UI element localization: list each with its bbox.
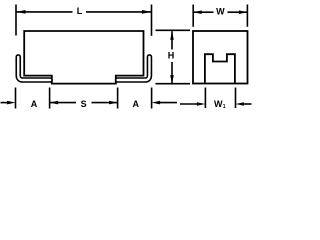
- terminal lead right (side view): [118, 57, 150, 80]
- svg-text:W: W: [216, 6, 225, 16]
- capacitor body outline (side view): [24, 31, 143, 84]
- S arrowhead right: [109, 101, 118, 105]
- W1 dimension extension line left: [204, 88, 206, 109]
- S dimension line: [50, 102, 76, 104]
- A dimension extension line inner left: [49, 88, 51, 109]
- W dimension line: [193, 11, 213, 13]
- W arrowhead right: [239, 10, 248, 14]
- H dimension extension line bottom: [156, 83, 191, 85]
- W1 dimension outside shaft right: [244, 103, 252, 105]
- A arrowhead right (points left): [152, 101, 161, 105]
- A dimension outside shaft right: [158, 102, 177, 104]
- S dimension extension line inner right: [117, 88, 119, 109]
- W dimension extension line left: [192, 5, 194, 27]
- S arrowhead left: [50, 101, 59, 105]
- W1 dimension extension line right: [235, 88, 237, 109]
- W1 arrowhead left (points right): [197, 102, 206, 106]
- svg-text:S: S: [81, 99, 87, 109]
- H arrowhead top: [170, 31, 174, 40]
- H arrowhead bottom: [170, 75, 174, 84]
- L dimension extension line right: [151, 5, 153, 36]
- W1 dimension outside shaft left: [180, 103, 198, 105]
- W arrowhead left: [193, 10, 202, 14]
- W1 arrowhead right (points left): [236, 102, 245, 106]
- H dimension extension line top: [156, 29, 191, 31]
- svg-text:L: L: [77, 6, 83, 16]
- terminal lead left (side view): [18, 57, 50, 80]
- A dimension outside shaft left: [1, 102, 10, 104]
- L arrowhead right: [142, 10, 152, 14]
- svg-text:1: 1: [223, 104, 226, 110]
- svg-text:H: H: [168, 51, 175, 61]
- H dimension line: [171, 31, 173, 49]
- A dimension extension line far right: [151, 88, 153, 109]
- svg-text:A: A: [31, 99, 38, 109]
- A arrowhead left (points right): [7, 101, 16, 105]
- end view body box: [193, 31, 248, 84]
- L arrowhead left: [16, 10, 26, 14]
- svg-text:W: W: [214, 99, 223, 109]
- A dimension extension line far left: [15, 88, 17, 109]
- svg-text:A: A: [133, 99, 140, 109]
- L dimension line: [16, 11, 73, 13]
- L dimension extension line left: [15, 5, 17, 36]
- W dimension extension line right: [246, 5, 248, 27]
- end view terminal shape: [205, 54, 235, 83]
